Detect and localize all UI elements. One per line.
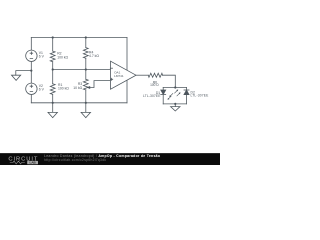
LED D2 emission arrows (175, 90, 181, 96)
wire bottom rail (31, 102, 127, 104)
node LED bottom (174, 103, 176, 105)
wire V- supply drop (126, 80, 128, 103)
node LED top (174, 86, 176, 88)
ground bottom left (48, 103, 57, 118)
wire V+ supply drop (126, 38, 128, 71)
node mid-supply junction (30, 70, 32, 72)
resistor R1 (50, 70, 55, 103)
wire middle node (53, 69, 111, 71)
op-amp non-inverting input plus sign (111, 78, 113, 80)
op-amp inverting input minus sign (110, 67, 112, 69)
ground bottom middle (81, 103, 90, 118)
op-amp OA1 (111, 61, 137, 89)
resistor R4 (83, 38, 88, 70)
node middle R4/R3 (85, 68, 87, 70)
wire LED bottom rail (163, 103, 186, 105)
wire top rail (31, 37, 127, 39)
svg-text:LTL-307EE: LTL-307EE (191, 94, 210, 98)
wire V1 to V2 (30, 62, 32, 84)
node middle left (52, 68, 54, 70)
svg-text:4.7 kΩ: 4.7 kΩ (89, 54, 99, 58)
svg-text:100 kΩ: 100 kΩ (57, 55, 68, 59)
LED D2 (184, 88, 189, 104)
wiper arrowhead (87, 86, 91, 89)
footer bar (0, 153, 220, 165)
svg-text:http://circuitlab.com/c2sp6h2l: http://circuitlab.com/c2sp6h2l7q3dk (44, 158, 106, 162)
footer logo LAB box (27, 161, 38, 164)
svg-text:100 Ω: 100 Ω (150, 83, 159, 87)
wire V2 bottom stub (30, 95, 32, 103)
wire op-amp output (136, 74, 148, 76)
svg-text:LM741: LM741 (114, 74, 124, 78)
potentiometer R3 (83, 70, 88, 103)
ground left (12, 75, 21, 80)
footer logo resistor zigzag (10, 161, 25, 164)
node top rail R4 (85, 36, 87, 38)
voltage source V2 (26, 83, 37, 94)
resistor R6 (148, 73, 162, 77)
node bottom rail R1 (52, 102, 54, 104)
ground LED (171, 104, 180, 111)
svg-text:LTL-307EE: LTL-307EE (143, 94, 161, 98)
node bottom rail R3 (85, 102, 87, 104)
svg-text:100 kΩ: 100 kΩ (58, 86, 69, 90)
svg-text:6 V: 6 V (39, 87, 45, 91)
voltage source V1 (26, 50, 37, 61)
wire V1 top stub (30, 38, 32, 51)
LED D1 emission arrows (168, 93, 173, 99)
svg-text:LAB: LAB (30, 161, 37, 165)
LED D1 (161, 88, 166, 104)
wire ground tap (16, 71, 31, 76)
wire R6 to LED block (163, 75, 176, 87)
svg-text:6 V: 6 V (39, 54, 45, 58)
resistor R2 (50, 38, 55, 70)
wire LED top rail (163, 87, 186, 89)
node top rail R2 (52, 36, 54, 38)
svg-text:10 kΩ: 10 kΩ (73, 86, 82, 90)
wire R3 wiper to op-amp + input (90, 81, 111, 88)
